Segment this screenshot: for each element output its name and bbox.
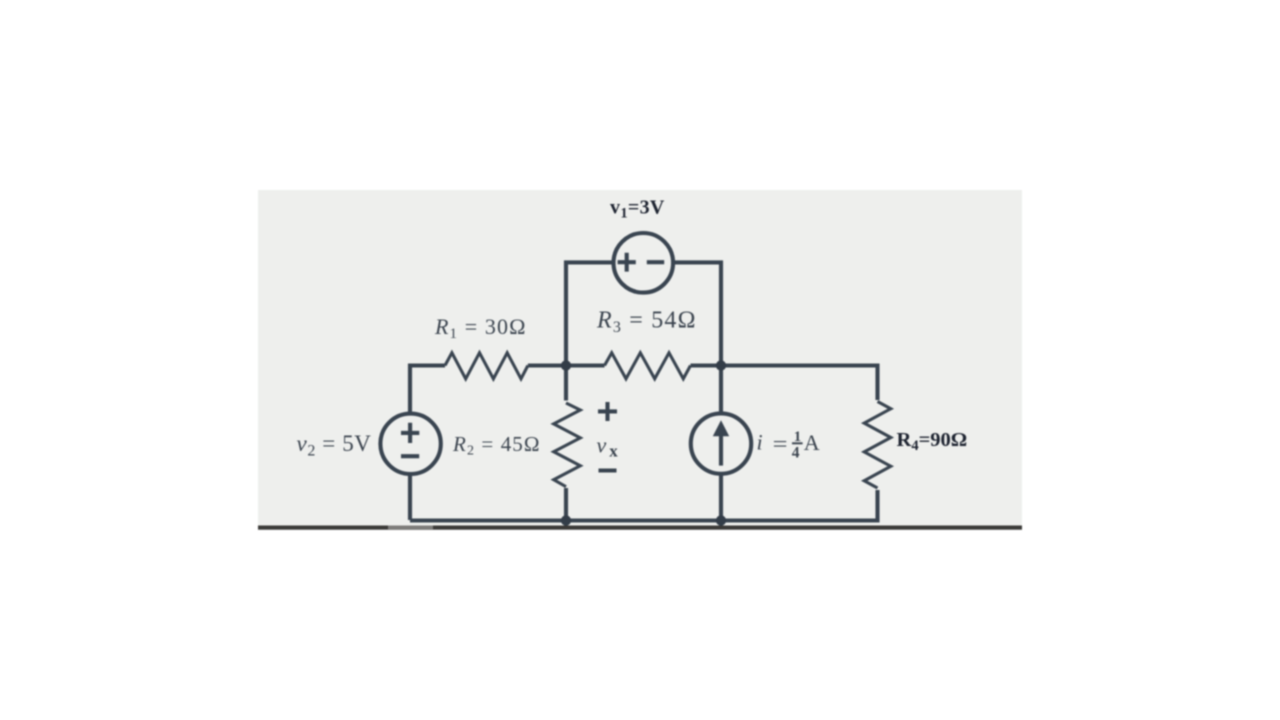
- svg-text:i: i: [757, 430, 763, 455]
- svg-text:4: 4: [792, 444, 800, 461]
- current source arrow shaft: [719, 435, 723, 466]
- junction bottom-right dot: [716, 515, 726, 525]
- wire current source bottom stub: [719, 474, 723, 520]
- vx minus sign: [599, 468, 617, 472]
- junction node A dot: [561, 360, 571, 370]
- resistor R3 zigzag: [605, 353, 691, 379]
- background panel: [258, 190, 1022, 530]
- svg-text:R2 = 45Ω: R2 = 45Ω: [452, 432, 541, 459]
- V2 minus sign: [401, 454, 419, 458]
- svg-text:R4=90Ω: R4=90Ω: [897, 429, 968, 454]
- wire node B to R4 corner: [721, 366, 878, 401]
- wire V2 bottom stub: [408, 474, 412, 520]
- V1 minus sign: [647, 260, 664, 264]
- svg-text:v1=3V: v1=3V: [610, 197, 665, 222]
- svg-text:R1 = 30Ω: R1 = 30Ω: [434, 314, 527, 342]
- resistor R1 zigzag: [445, 353, 528, 379]
- wire R2 to bottom rail: [564, 488, 568, 520]
- V2 plus sign: [401, 423, 419, 443]
- wire left rail to R1: [410, 366, 445, 368]
- voltage source V2 circle: [380, 414, 440, 474]
- wire node A to R3: [566, 363, 605, 367]
- svg-text:A: A: [804, 430, 820, 455]
- wire node A down to R2: [564, 366, 568, 401]
- wire top-right horizontal from V1 to corner: [675, 262, 721, 367]
- vx plus sign: [598, 402, 617, 421]
- wire R3 to node B: [691, 363, 722, 367]
- svg-text:=: =: [773, 431, 788, 456]
- label i = 1/4 A: [757, 429, 820, 461]
- current source I circle: [691, 413, 751, 473]
- wire R4 bottom to rail corner: [410, 490, 878, 521]
- resistor R2 zigzag: [554, 403, 581, 487]
- current source arrowhead: [713, 420, 729, 436]
- wire V2 top stub: [408, 367, 412, 414]
- svg-text:R3 = 54Ω: R3 = 54Ω: [596, 308, 697, 337]
- voltage source V1 circle: [614, 233, 674, 293]
- wire R1 to node A: [528, 363, 566, 367]
- junction bottom-left dot: [561, 515, 571, 525]
- V1 plus sign: [618, 253, 636, 272]
- resistor R4 zigzag: [864, 402, 891, 489]
- junction node B dot: [716, 360, 726, 370]
- wire node B down to current source: [719, 366, 723, 415]
- wire top-left horizontal from corner to V1: [566, 262, 612, 367]
